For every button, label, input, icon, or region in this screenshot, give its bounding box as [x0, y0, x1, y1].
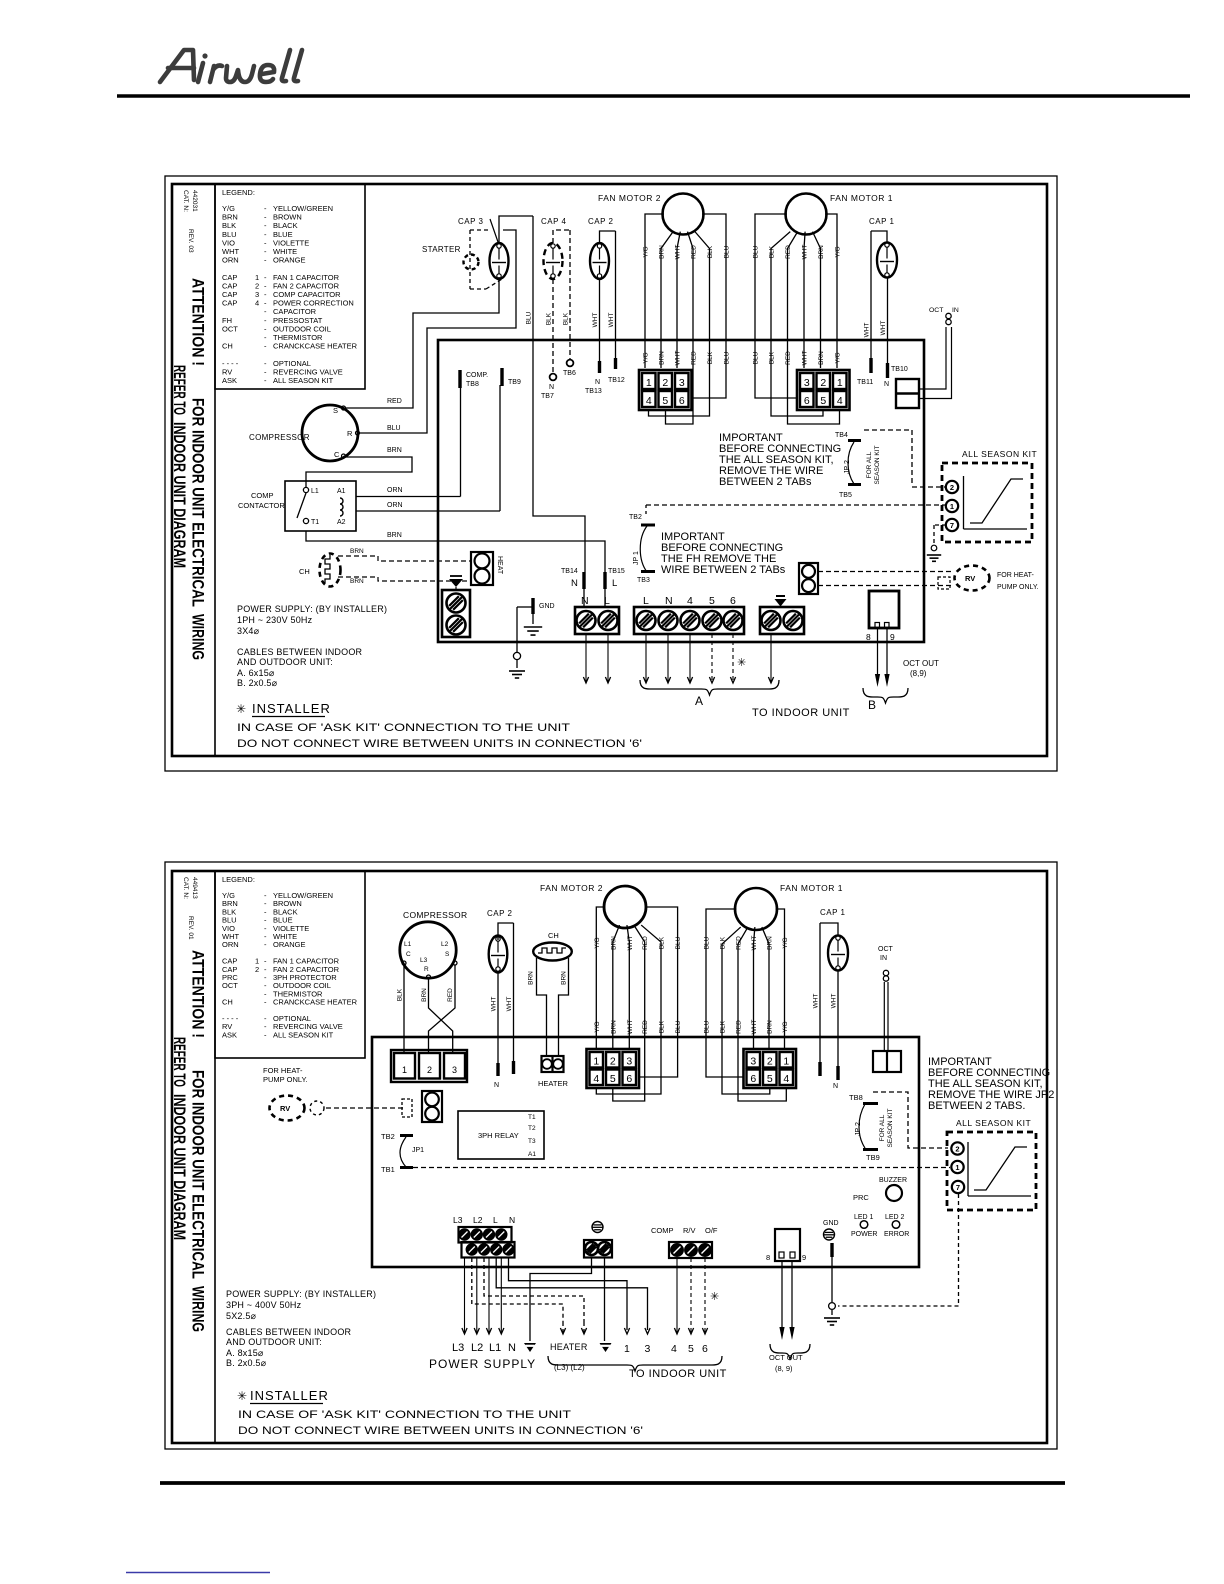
svg-text:DO NOT CONNECT WIRE BETWEEN UN: DO NOT CONNECT WIRE BETWEEN UNITS IN CON…	[238, 1425, 643, 1437]
svg-text:INDOOR UNIT DIAGRAM: INDOOR UNIT DIAGRAM	[170, 1094, 189, 1240]
svg-text:RED: RED	[736, 1020, 743, 1034]
svg-text:TB13: TB13	[585, 388, 602, 395]
svg-text:BLK: BLK	[397, 988, 404, 1001]
svg-text:5: 5	[767, 1073, 773, 1085]
svg-text:L3: L3	[452, 1342, 464, 1354]
svg-text:R/V: R/V	[683, 1226, 696, 1235]
svg-text:BLU: BLU	[675, 1020, 682, 1033]
svg-text:CH: CH	[222, 342, 233, 351]
svg-text:RED: RED	[785, 245, 792, 259]
svg-text:LED 1: LED 1	[854, 1214, 874, 1221]
svg-text:DO NOT CONNECT WIRE BETWEEN UN: DO NOT CONNECT WIRE BETWEEN UNITS IN CON…	[237, 738, 642, 750]
svg-text:WHT: WHT	[675, 351, 682, 366]
svg-text:WHT: WHT	[864, 323, 871, 338]
svg-text:1PH ~ 230V 50Hz: 1PH ~ 230V 50Hz	[237, 615, 313, 625]
svg-text:RED: RED	[447, 988, 454, 1002]
svg-text:✳: ✳	[237, 1389, 247, 1403]
svg-text:BLK: BLK	[659, 1020, 666, 1033]
svg-text:Y/G: Y/G	[643, 246, 650, 257]
svg-text:TB12: TB12	[608, 377, 625, 384]
svg-text:T2: T2	[528, 1125, 536, 1132]
svg-text:FOR ALL: FOR ALL	[866, 451, 873, 478]
svg-text:CABLES BETWEEN INDOOR: CABLES BETWEEN INDOOR	[237, 647, 363, 657]
svg-text:TB1: TB1	[381, 1165, 395, 1174]
svg-text:CAT. N:: CAT. N:	[182, 190, 189, 212]
svg-text:ATTENTION !: ATTENTION !	[189, 950, 208, 1038]
svg-text:ORANGE: ORANGE	[273, 940, 306, 949]
svg-text:N: N	[833, 1083, 838, 1090]
svg-text:IN: IN	[880, 955, 887, 962]
svg-text:WHT: WHT	[627, 936, 634, 951]
svg-text:FOR INDOOR UNIT ELECTRICAL: FOR INDOOR UNIT ELECTRICAL	[189, 398, 208, 607]
svg-text:ALL SEASON KIT: ALL SEASON KIT	[962, 449, 1037, 459]
svg-text:ORN: ORN	[222, 940, 239, 949]
svg-text:TB4: TB4	[835, 432, 848, 439]
svg-text:BLK: BLK	[720, 936, 727, 949]
svg-text:2: 2	[255, 965, 259, 974]
svg-text:IN CASE OF 'ASK KIT' CONNECTIO: IN CASE OF 'ASK KIT' CONNECTION TO THE U…	[238, 1409, 571, 1421]
svg-text:ALL SEASON KIT: ALL SEASON KIT	[273, 376, 334, 385]
svg-text:5: 5	[662, 395, 668, 407]
svg-text:L2: L2	[471, 1342, 483, 1354]
svg-text:POWER: POWER	[851, 1231, 877, 1238]
svg-text:TB10: TB10	[891, 366, 908, 373]
svg-text:3: 3	[679, 377, 685, 389]
svg-text:Y/G: Y/G	[594, 937, 601, 948]
svg-text:6: 6	[626, 1073, 632, 1085]
svg-text:R: R	[424, 966, 429, 973]
svg-text:CRANCKCASE HEATER: CRANCKCASE HEATER	[273, 998, 358, 1007]
svg-text:Y/G: Y/G	[643, 352, 650, 363]
svg-text:ORN: ORN	[222, 256, 239, 265]
svg-text:O/F: O/F	[705, 1226, 718, 1235]
svg-text:T1: T1	[311, 519, 319, 526]
svg-text:REFER TO: REFER TO	[170, 1037, 189, 1087]
svg-text:L1: L1	[311, 488, 319, 495]
svg-text:WHT: WHT	[813, 994, 820, 1009]
svg-text:A. 8x15⌀: A. 8x15⌀	[226, 1348, 264, 1358]
svg-text:8: 8	[766, 1253, 770, 1262]
svg-text:BRN: BRN	[767, 1020, 774, 1034]
svg-text:N: N	[884, 381, 889, 388]
svg-text:1: 1	[955, 1163, 959, 1172]
svg-text:BLU: BLU	[753, 351, 760, 364]
svg-text:L: L	[604, 595, 610, 607]
svg-text:COMP: COMP	[651, 1226, 674, 1235]
svg-text:LED 2: LED 2	[885, 1214, 905, 1221]
svg-text:INSTALLER: INSTALLER	[252, 701, 331, 716]
svg-text:B. 2x0.5⌀: B. 2x0.5⌀	[237, 678, 278, 688]
svg-text:RED: RED	[736, 936, 743, 950]
svg-text:BRN: BRN	[350, 578, 364, 585]
svg-text:N: N	[665, 595, 673, 607]
svg-text:TB3: TB3	[637, 577, 650, 584]
svg-text:Y/G: Y/G	[835, 246, 842, 257]
svg-text:INDOOR UNIT DIAGRAM: INDOOR UNIT DIAGRAM	[170, 422, 189, 568]
svg-text:BRN: BRN	[767, 936, 774, 950]
svg-text:LEGEND:: LEGEND:	[222, 875, 255, 884]
svg-text:COMP.: COMP.	[466, 372, 488, 379]
svg-text:BRN: BRN	[818, 245, 825, 259]
svg-text:S: S	[445, 951, 450, 958]
svg-text:BLK: BLK	[563, 312, 570, 325]
svg-text:WHT: WHT	[831, 994, 838, 1009]
svg-text:BLK: BLK	[659, 936, 666, 949]
svg-text:1: 1	[950, 502, 954, 511]
svg-text:BLU: BLU	[753, 245, 760, 258]
svg-text:442031: 442031	[191, 190, 198, 212]
svg-text:WHT: WHT	[627, 1020, 634, 1035]
svg-text:ORN: ORN	[387, 502, 403, 509]
svg-text:BETWEEN 2 TABS.: BETWEEN 2 TABS.	[928, 1100, 1025, 1112]
svg-text:WIRING: WIRING	[189, 614, 208, 660]
svg-text:4: 4	[671, 1343, 677, 1355]
svg-text:1: 1	[783, 1056, 789, 1068]
svg-text:6: 6	[750, 1073, 756, 1085]
svg-text:FOR ALL: FOR ALL	[879, 1114, 886, 1141]
svg-text:N: N	[508, 1342, 516, 1354]
svg-text:BRN: BRN	[387, 447, 402, 454]
svg-text:1: 1	[624, 1343, 630, 1355]
svg-text:PUMP ONLY.: PUMP ONLY.	[263, 1075, 308, 1084]
svg-text:TB9: TB9	[866, 1153, 880, 1162]
svg-text:N: N	[571, 578, 578, 589]
svg-text:5X2.5⌀: 5X2.5⌀	[226, 1311, 257, 1321]
svg-text:L1: L1	[404, 941, 412, 948]
svg-text:SEASON KIT: SEASON KIT	[874, 445, 881, 484]
svg-text:4: 4	[593, 1073, 599, 1085]
svg-text:BRN: BRN	[818, 351, 825, 365]
svg-text:WHT: WHT	[506, 997, 513, 1012]
svg-text:FOR INDOOR UNIT ELECTRICAL: FOR INDOOR UNIT ELECTRICAL	[189, 1070, 208, 1279]
svg-text:L: L	[493, 1215, 498, 1225]
svg-text:5: 5	[709, 595, 715, 607]
svg-text:TB5: TB5	[839, 492, 852, 499]
svg-text:IN: IN	[952, 307, 959, 314]
svg-text:6: 6	[679, 395, 685, 407]
svg-text:RED: RED	[691, 351, 698, 365]
svg-text:FOR HEAT-: FOR HEAT-	[263, 1066, 303, 1075]
svg-text:BLU: BLU	[724, 245, 731, 258]
svg-text:FAN MOTOR 2: FAN MOTOR 2	[540, 883, 603, 893]
svg-text:CONTACTOR: CONTACTOR	[238, 501, 285, 510]
svg-text:AND OUTDOOR UNIT:: AND OUTDOOR UNIT:	[237, 657, 333, 667]
svg-text:TB15: TB15	[608, 568, 625, 575]
svg-text:T3: T3	[528, 1138, 536, 1145]
svg-text:5: 5	[610, 1073, 616, 1085]
svg-text:RED: RED	[642, 936, 649, 950]
svg-text:2: 2	[820, 377, 826, 389]
svg-text:HEAT: HEAT	[496, 556, 503, 575]
svg-text:WHT: WHT	[751, 1020, 758, 1035]
svg-text:BRN: BRN	[659, 245, 666, 259]
svg-text:ORANGE: ORANGE	[273, 256, 306, 265]
svg-text:3: 3	[452, 1065, 457, 1075]
svg-text:HEATER: HEATER	[550, 1342, 588, 1352]
svg-text:BLK: BLK	[707, 245, 714, 258]
svg-text:WIRING: WIRING	[189, 1286, 208, 1332]
svg-text:TB9: TB9	[508, 379, 521, 386]
svg-text:N: N	[595, 379, 600, 386]
svg-text:IN CASE OF 'ASK KIT' CONNECTIO: IN CASE OF 'ASK KIT' CONNECTION TO THE U…	[237, 722, 570, 734]
svg-text:L2: L2	[473, 1215, 483, 1225]
svg-text:WIRE BETWEEN 2 TABs: WIRE BETWEEN 2 TABs	[661, 564, 786, 576]
svg-text:WHT: WHT	[751, 936, 758, 951]
svg-text:A. 6x15⌀: A. 6x15⌀	[237, 668, 275, 678]
svg-text:L: L	[612, 578, 617, 589]
svg-text:2: 2	[427, 1065, 432, 1075]
svg-text:CABLES BETWEEN INDOOR: CABLES BETWEEN INDOOR	[226, 1327, 352, 1337]
svg-text:POWER SUPPLY: (BY INSTALLER): POWER SUPPLY: (BY INSTALLER)	[226, 1289, 376, 1299]
svg-text:2: 2	[950, 483, 954, 492]
svg-text:CH: CH	[548, 931, 559, 940]
svg-text:L2: L2	[441, 941, 449, 948]
svg-text:JP1: JP1	[412, 1147, 424, 1154]
svg-text:3PH ~ 400V 50Hz: 3PH ~ 400V 50Hz	[226, 1300, 302, 1310]
svg-text:L1: L1	[489, 1342, 501, 1354]
svg-text:L: L	[643, 595, 649, 607]
svg-text:HEATER: HEATER	[538, 1079, 568, 1088]
svg-text:LEGEND:: LEGEND:	[222, 188, 255, 197]
svg-text:ERROR: ERROR	[884, 1231, 909, 1238]
svg-text:BRN: BRN	[421, 988, 428, 1002]
svg-text:B: B	[868, 698, 876, 712]
svg-text:TB2: TB2	[381, 1132, 395, 1141]
svg-text:2: 2	[955, 1144, 959, 1153]
svg-text:RED: RED	[785, 351, 792, 365]
svg-text:REFER TO: REFER TO	[170, 365, 189, 415]
svg-text:2: 2	[610, 1056, 616, 1068]
svg-text:FOR HEAT-: FOR HEAT-	[997, 572, 1034, 579]
svg-text:A1: A1	[528, 1151, 536, 1158]
svg-text:4: 4	[837, 395, 843, 407]
svg-text:BLU: BLU	[704, 936, 711, 949]
svg-text:Y/G: Y/G	[782, 937, 789, 948]
svg-text:TB14: TB14	[561, 568, 578, 575]
svg-text:4: 4	[687, 595, 693, 607]
svg-text:BRN: BRN	[561, 971, 568, 985]
svg-text:OCT OUT: OCT OUT	[903, 659, 939, 668]
svg-text:COMPRESSOR: COMPRESSOR	[403, 910, 467, 920]
svg-text:Y/G: Y/G	[594, 1021, 601, 1032]
svg-text:CAP 2: CAP 2	[588, 217, 614, 226]
svg-text:POWER SUPPLY: (BY INSTALLER): POWER SUPPLY: (BY INSTALLER)	[237, 604, 387, 614]
svg-text:TB2: TB2	[629, 514, 642, 521]
svg-text:Y/G: Y/G	[782, 1021, 789, 1032]
svg-text:INSTALLER: INSTALLER	[250, 1388, 329, 1403]
svg-text:JP 2: JP 2	[844, 460, 851, 474]
svg-text:6: 6	[804, 395, 810, 407]
svg-text:FAN MOTOR 1: FAN MOTOR 1	[830, 193, 893, 203]
svg-text:7: 7	[950, 521, 954, 530]
svg-text:5: 5	[820, 395, 826, 407]
svg-text:JP 2: JP 2	[855, 1122, 862, 1136]
svg-text:JP 1: JP 1	[633, 551, 640, 565]
svg-text:OCT: OCT	[222, 981, 238, 990]
svg-text:C: C	[334, 450, 340, 459]
svg-text:C: C	[406, 951, 411, 958]
svg-text:7: 7	[956, 1183, 960, 1192]
svg-text:CH: CH	[299, 567, 310, 576]
svg-text:BRN: BRN	[659, 351, 666, 365]
svg-text:BETWEEN 2 TABs: BETWEEN 2 TABs	[719, 476, 812, 488]
svg-text:OCT: OCT	[929, 307, 943, 314]
svg-text:ALL SEASON KIT: ALL SEASON KIT	[956, 1118, 1031, 1128]
svg-text:ORN: ORN	[387, 487, 403, 494]
svg-text:CAP 3: CAP 3	[458, 217, 484, 226]
svg-text:OCT: OCT	[222, 324, 238, 333]
svg-text:9: 9	[802, 1253, 806, 1262]
svg-text:N: N	[549, 384, 554, 391]
svg-text:WHT: WHT	[880, 321, 887, 336]
svg-text:OCT: OCT	[878, 946, 894, 953]
svg-text:RED: RED	[691, 245, 698, 259]
svg-text:CAP: CAP	[222, 299, 237, 308]
svg-text:S: S	[333, 406, 338, 415]
svg-text:TO INDOOR UNIT: TO INDOOR UNIT	[629, 1368, 727, 1380]
svg-text:GND: GND	[823, 1220, 839, 1227]
svg-text:CAP 2: CAP 2	[487, 909, 513, 918]
svg-text:RED: RED	[387, 398, 402, 405]
svg-text:BRN: BRN	[387, 532, 402, 539]
svg-text:3: 3	[804, 377, 810, 389]
svg-text:✳: ✳	[236, 702, 246, 716]
svg-text:✳: ✳	[737, 657, 746, 669]
svg-text:STARTER: STARTER	[422, 245, 461, 254]
svg-text:A2: A2	[337, 519, 346, 526]
svg-text:BRN: BRN	[610, 936, 617, 950]
svg-text:AND OUTDOOR UNIT:: AND OUTDOOR UNIT:	[226, 1337, 322, 1347]
svg-text:(8, 9): (8, 9)	[775, 1364, 793, 1373]
svg-text:BLK: BLK	[769, 351, 776, 364]
svg-text:A: A	[695, 694, 703, 708]
svg-text:GND: GND	[539, 603, 555, 610]
svg-text:TO INDOOR UNIT: TO INDOOR UNIT	[752, 707, 850, 719]
svg-text:5: 5	[688, 1343, 694, 1355]
svg-text:✳: ✳	[710, 1291, 719, 1303]
svg-text:WHT: WHT	[675, 245, 682, 260]
svg-text:WHT: WHT	[802, 351, 809, 366]
svg-text:RV: RV	[965, 574, 975, 583]
svg-text:BLK: BLK	[707, 351, 714, 364]
svg-text:PUMP ONLY.: PUMP ONLY.	[997, 584, 1039, 591]
svg-text:ALL SEASON KIT: ALL SEASON KIT	[273, 1030, 334, 1039]
svg-text:TB11: TB11	[857, 379, 873, 386]
svg-text:WHT: WHT	[592, 313, 599, 328]
svg-text:SEASON KIT: SEASON KIT	[887, 1108, 894, 1147]
svg-text:OCT OUT: OCT OUT	[769, 1353, 803, 1362]
svg-text:BLU: BLU	[526, 311, 533, 324]
svg-text:ASK: ASK	[222, 376, 237, 385]
svg-text:ASK: ASK	[222, 1030, 237, 1039]
svg-text:L3: L3	[453, 1215, 463, 1225]
svg-text:BLU: BLU	[387, 425, 401, 432]
svg-text:BLK: BLK	[720, 1020, 727, 1033]
svg-text:WHT: WHT	[491, 997, 498, 1012]
svg-text:3PH RELAY: 3PH RELAY	[478, 1131, 519, 1140]
svg-text:CAP 1: CAP 1	[820, 908, 846, 917]
svg-text:BLU: BLU	[675, 936, 682, 949]
svg-text:BRN: BRN	[528, 971, 535, 985]
svg-text:REV. 03: REV. 03	[187, 229, 194, 253]
svg-text:REV. 01: REV. 01	[187, 916, 194, 940]
svg-text:449413: 449413	[191, 877, 198, 899]
svg-text:N: N	[509, 1215, 515, 1225]
svg-text:BUZZER: BUZZER	[879, 1177, 907, 1184]
svg-text:POWER SUPPLY: POWER SUPPLY	[429, 1357, 536, 1371]
svg-text:BLK: BLK	[769, 245, 776, 258]
svg-text:FAN MOTOR 1: FAN MOTOR 1	[780, 883, 843, 893]
svg-text:(8,9): (8,9)	[910, 669, 927, 678]
svg-text:WHT: WHT	[608, 313, 615, 328]
svg-text:1: 1	[646, 377, 652, 389]
svg-text:CAP 4: CAP 4	[541, 217, 567, 226]
svg-text:4: 4	[255, 299, 259, 308]
svg-text:TB7: TB7	[541, 393, 554, 400]
svg-text:TB8: TB8	[849, 1093, 863, 1102]
svg-text:6: 6	[730, 595, 736, 607]
svg-text:PRC: PRC	[853, 1193, 869, 1202]
svg-text:8: 8	[866, 632, 871, 642]
svg-text:FAN MOTOR 2: FAN MOTOR 2	[598, 193, 661, 203]
svg-text:4: 4	[783, 1073, 789, 1085]
svg-text:BLK: BLK	[546, 312, 553, 325]
svg-text:Y/G: Y/G	[835, 352, 842, 363]
svg-text:B. 2x0.5⌀: B. 2x0.5⌀	[226, 1358, 267, 1368]
svg-text:3: 3	[626, 1056, 632, 1068]
svg-text:3: 3	[750, 1056, 756, 1068]
svg-text:4: 4	[646, 395, 652, 407]
svg-text:CRANCKCASE HEATER: CRANCKCASE HEATER	[273, 342, 358, 351]
svg-text:TB8: TB8	[466, 381, 479, 388]
svg-text:N: N	[581, 595, 589, 607]
svg-text:RED: RED	[642, 1020, 649, 1034]
svg-text:1: 1	[402, 1065, 407, 1075]
svg-text:BLU: BLU	[724, 351, 731, 364]
svg-text:9: 9	[890, 632, 895, 642]
svg-text:3X4⌀: 3X4⌀	[237, 626, 260, 636]
svg-text:CH: CH	[222, 998, 233, 1007]
svg-text:RV: RV	[280, 1104, 290, 1113]
svg-text:BLU: BLU	[704, 1020, 711, 1033]
svg-text:A1: A1	[337, 488, 346, 495]
svg-text:R: R	[347, 429, 353, 438]
svg-text:T1: T1	[528, 1114, 536, 1121]
svg-text:BRN: BRN	[350, 548, 364, 555]
svg-text:2: 2	[662, 377, 668, 389]
svg-text:ATTENTION !: ATTENTION !	[189, 278, 208, 366]
svg-text:1: 1	[593, 1056, 599, 1068]
svg-text:1: 1	[837, 377, 843, 389]
svg-text:CAP 1: CAP 1	[869, 217, 895, 226]
svg-text:BRN: BRN	[610, 1020, 617, 1034]
svg-text:CAT. N:: CAT. N:	[182, 877, 189, 899]
svg-text:3: 3	[645, 1343, 651, 1355]
svg-text:TB6: TB6	[563, 370, 576, 377]
svg-text:N: N	[494, 1082, 499, 1089]
svg-text:2: 2	[767, 1056, 773, 1068]
svg-text:L3: L3	[420, 957, 428, 964]
svg-text:COMP: COMP	[251, 491, 274, 500]
svg-text:WHT: WHT	[802, 245, 809, 260]
svg-text:6: 6	[702, 1343, 708, 1355]
